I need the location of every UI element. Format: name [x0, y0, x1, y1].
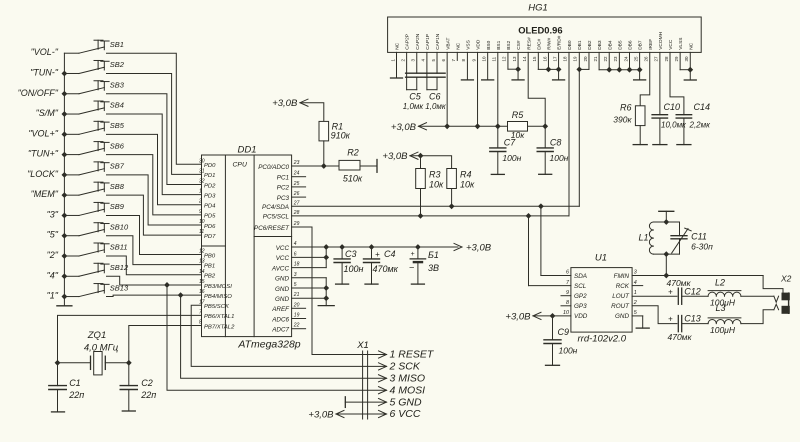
svg-text:DB3: DB3 — [597, 40, 603, 50]
stub — [292, 176, 306, 178]
wire SB3 to MCU — [107, 94, 202, 185]
svg-text:SB9: SB9 — [110, 202, 125, 211]
svg-text:+: + — [668, 315, 673, 324]
svg-text:10к: 10к — [429, 179, 444, 189]
wire PC0/ADC0 — [292, 165, 324, 167]
stub GP2 — [561, 295, 571, 297]
svg-text:NC: NC — [395, 42, 401, 49]
svg-text:29: 29 — [674, 56, 679, 62]
svg-text:BS2: BS2 — [506, 40, 512, 49]
svg-text:10: 10 — [563, 310, 569, 316]
svg-text:1,0мк: 1,0мк — [403, 102, 425, 111]
svg-text:8: 8 — [566, 300, 569, 306]
svg-text:13: 13 — [199, 259, 205, 265]
node DB5 — [616, 67, 622, 73]
svg-text:4: 4 — [294, 241, 297, 247]
svg-text:3 MISO: 3 MISO — [390, 373, 426, 385]
wire C13 to L3 — [682, 323, 708, 325]
svg-text:SCL: SCL — [574, 283, 587, 290]
wire antenna to tank — [665, 211, 667, 222]
wire VBAT to rail — [446, 52, 448, 126]
stub — [292, 196, 306, 198]
svg-text:1 RESET: 1 RESET — [390, 349, 435, 361]
svg-text:VCOMH: VCOMH — [658, 31, 664, 49]
svg-text:16: 16 — [199, 289, 205, 295]
svg-text:VDD: VDD — [574, 313, 588, 320]
svg-text:+: + — [375, 250, 380, 259]
svg-text:PD1: PD1 — [204, 173, 215, 179]
svg-text:ZQ1: ZQ1 — [87, 330, 106, 341]
svg-text:10к: 10к — [460, 179, 475, 189]
pin 4 MOSI arrow — [379, 387, 387, 394]
node R3 top — [418, 153, 424, 159]
svg-text:9: 9 — [199, 209, 202, 215]
ground (C7) — [491, 173, 504, 175]
svg-text:X1: X1 — [356, 340, 369, 351]
svg-text:9: 9 — [566, 290, 569, 296]
svg-text:1,0мк: 1,0мк — [425, 102, 447, 111]
wire VCC6/AVCC to rail — [325, 247, 327, 268]
wire BS0 to ground — [487, 52, 489, 80]
capacitor C8 100n — [544, 126, 546, 148]
node FMIN — [663, 273, 669, 279]
node SDA/U1 — [538, 203, 544, 209]
svg-text:2: 2 — [198, 199, 202, 205]
svg-text:100н: 100н — [550, 153, 569, 163]
svg-text:+3,0В: +3,0В — [391, 122, 417, 133]
ground (R6) — [633, 144, 647, 146]
svg-text:31: 31 — [199, 168, 205, 174]
svg-text:SB12: SB12 — [110, 263, 129, 272]
svg-text:18: 18 — [294, 262, 300, 268]
wire NC pin1 — [396, 52, 398, 78]
svg-text:L3: L3 — [715, 303, 725, 313]
button SB1 — [31, 40, 124, 57]
svg-text:100н: 100н — [559, 346, 578, 356]
svg-text:14: 14 — [199, 269, 205, 275]
svg-text:32: 32 — [199, 179, 205, 185]
node BS1/C7 — [495, 123, 501, 129]
inductor L1 — [638, 222, 679, 254]
svg-text:C5: C5 — [409, 92, 421, 102]
resistor R2 510k — [324, 165, 339, 167]
node DB6 — [627, 67, 633, 73]
svg-text:26: 26 — [644, 56, 649, 62]
svg-text:–: – — [409, 263, 415, 272]
svg-text:25: 25 — [633, 56, 638, 62]
svg-text:VCC: VCC — [276, 255, 290, 262]
wire LOUT to C12 — [632, 295, 677, 297]
capacitor C9 100n — [552, 316, 554, 340]
button SB9 — [47, 202, 125, 219]
svg-text:C1: C1 — [69, 378, 81, 388]
svg-text:3В: 3В — [428, 263, 439, 273]
pin 3 MISO arrow — [379, 375, 387, 382]
svg-text:1: 1 — [199, 189, 202, 195]
svg-text:30: 30 — [199, 158, 205, 164]
svg-text:DB7: DB7 — [638, 40, 644, 50]
ground (MCU) — [318, 305, 334, 307]
svg-text:+3,0В: +3,0В — [382, 151, 408, 162]
svg-text:24: 24 — [293, 171, 300, 177]
wire SB12 to MCU — [107, 276, 202, 285]
wire U1 GND to ground — [632, 315, 643, 317]
wire SCL net (PC5 - R3 - U1 - OLED DB0) — [292, 215, 569, 217]
wire SB8 to MCU — [107, 195, 202, 235]
svg-text:+3,0В: +3,0В — [308, 410, 334, 421]
svg-text:PB1: PB1 — [204, 263, 215, 269]
svg-text:BS0: BS0 — [486, 40, 492, 49]
svg-text:"S/M": "S/M" — [36, 108, 59, 118]
node SDA/R4 — [449, 203, 455, 209]
ground (C8) — [539, 173, 552, 175]
svg-text:AREF: AREF — [271, 306, 290, 313]
svg-text:CAP2N: CAP2N — [415, 33, 421, 50]
svg-text:22п: 22п — [140, 390, 156, 400]
svg-text:Б1: Б1 — [428, 250, 439, 260]
stub — [292, 307, 306, 309]
wire BS2/CS# to ground — [507, 52, 509, 69]
svg-text:20: 20 — [583, 56, 588, 62]
svg-text:29: 29 — [293, 221, 300, 227]
pin 2 SCK arrow — [379, 363, 387, 370]
svg-text:DB2: DB2 — [587, 40, 593, 50]
wire RES# to rail — [528, 52, 545, 126]
svg-text:1: 1 — [634, 290, 637, 296]
wire SB2 to MCU — [107, 73, 202, 174]
wire +3,0B to R3/R4 — [410, 156, 452, 169]
wire SB10 to MCU — [107, 236, 202, 265]
capacitor C1 22p — [57, 363, 59, 386]
svg-text:DB0: DB0 — [567, 40, 573, 50]
svg-text:2: 2 — [633, 300, 637, 306]
ground (VSS) — [461, 79, 473, 81]
node XTAL1 — [55, 360, 61, 366]
ground (C3) — [336, 283, 349, 285]
svg-text:PC1: PC1 — [277, 175, 289, 182]
svg-text:PC5/SCL: PC5/SCL — [263, 214, 290, 221]
wire VSS to ground — [466, 52, 468, 80]
button SB10 — [47, 222, 129, 239]
wire C12 to L2 — [682, 295, 708, 297]
svg-text:VDD: VDD — [476, 39, 482, 50]
node CS# — [515, 66, 521, 72]
svg-text:5 GND: 5 GND — [390, 396, 423, 408]
svg-text:SB5: SB5 — [110, 121, 125, 130]
svg-text:13: 13 — [512, 56, 517, 62]
wire R2 to terminal — [360, 165, 377, 167]
wire PB3/MOSI to X1-4 — [167, 285, 387, 390]
svg-text:3: 3 — [294, 272, 297, 278]
button SB11 — [47, 243, 128, 260]
node VBAT — [444, 123, 450, 129]
svg-text:R6: R6 — [620, 103, 632, 113]
svg-text:17: 17 — [199, 299, 205, 305]
node E/RD# — [556, 67, 562, 73]
svg-text:RES#: RES# — [526, 37, 532, 50]
wire SB13 to MCU — [107, 295, 202, 296]
svg-text:27: 27 — [293, 200, 300, 206]
svg-text:CAP2P: CAP2P — [405, 34, 411, 50]
node NC30 — [687, 67, 693, 73]
svg-text:C8: C8 — [550, 138, 562, 148]
resistor R6 390k — [635, 106, 645, 126]
svg-text:PB4/MISO: PB4/MISO — [204, 294, 232, 300]
wire FMIN to X2 — [632, 275, 763, 277]
stub — [292, 328, 306, 330]
wire SB7 to MCU — [107, 175, 202, 225]
svg-text:11: 11 — [199, 229, 204, 235]
inductor L2 100uH — [708, 278, 741, 308]
svg-text:GND: GND — [615, 313, 629, 320]
button SB4 — [36, 101, 124, 118]
ground (CS#) — [512, 79, 524, 81]
ground (C14) — [677, 144, 691, 146]
svg-text:C14: C14 — [694, 102, 711, 112]
wire L2 to X2 — [741, 295, 774, 297]
node R/W# — [546, 67, 552, 73]
svg-text:+3,0В: +3,0В — [466, 242, 492, 253]
svg-text:VBAT: VBAT — [445, 38, 451, 50]
node tank bottom — [663, 251, 669, 257]
wire SB1 to MCU — [107, 53, 202, 164]
wire R1 to PC0 — [323, 141, 325, 166]
svg-text:24: 24 — [623, 56, 628, 62]
node tank top — [663, 219, 669, 225]
node DB7 — [637, 67, 643, 73]
button SB6 — [28, 141, 125, 158]
svg-text:SB2: SB2 — [110, 60, 125, 69]
svg-text:PB6/XTAL1: PB6/XTAL1 — [204, 314, 234, 320]
svg-text:+: + — [411, 251, 415, 258]
svg-text:R4: R4 — [460, 169, 472, 179]
svg-text:C9: C9 — [558, 327, 570, 337]
display HG1 OLED0.96 — [388, 3, 702, 53]
node DB4 — [606, 67, 612, 73]
capacitor C10 10.0uk — [659, 52, 661, 114]
svg-text:3: 3 — [634, 270, 637, 276]
svg-text:SB1: SB1 — [110, 40, 124, 49]
svg-text:10: 10 — [481, 56, 486, 62]
svg-text:GND: GND — [275, 296, 289, 303]
svg-text:NC: NC — [688, 42, 694, 49]
ground (B1) — [411, 283, 424, 285]
svg-text:6: 6 — [566, 270, 569, 276]
svg-text:R5: R5 — [512, 110, 524, 120]
svg-text:ATmega328p: ATmega328p — [237, 339, 300, 351]
svg-text:VCC: VCC — [668, 39, 674, 50]
capacitor C6 1.0uk — [426, 52, 428, 89]
svg-text:L1: L1 — [638, 233, 648, 243]
svg-text:HG1: HG1 — [528, 3, 548, 14]
svg-text:100н: 100н — [502, 153, 521, 163]
button SB3 — [18, 80, 125, 97]
contact X2 tip — [774, 296, 779, 302]
wire L3 to X2 — [741, 310, 774, 324]
svg-text:25: 25 — [293, 181, 300, 187]
svg-text:L2: L2 — [715, 278, 725, 288]
wire DB0 (SCL) — [568, 52, 570, 69]
svg-text:PC2: PC2 — [277, 185, 290, 192]
wire VDD — [533, 315, 571, 317]
svg-text:SB11: SB11 — [110, 243, 128, 252]
svg-text:4 MOSI: 4 MOSI — [390, 384, 426, 396]
battery B1 3V — [417, 247, 419, 259]
terminal bar (pin1) — [391, 77, 403, 79]
svg-text:VCC: VCC — [276, 245, 290, 252]
capacitor C12 470uk — [677, 288, 679, 304]
svg-text:PB2: PB2 — [204, 274, 216, 280]
svg-text:C10: C10 — [664, 102, 681, 112]
power +3,0B (rail) — [454, 243, 462, 250]
svg-text:C11: C11 — [691, 231, 707, 241]
svg-text:PD4: PD4 — [204, 204, 216, 210]
svg-text:18: 18 — [563, 56, 568, 62]
svg-text:DD1: DD1 — [237, 145, 256, 156]
svg-text:X2: X2 — [780, 274, 792, 284]
resistor R1 910k — [319, 121, 329, 140]
svg-text:VSS: VSS — [466, 40, 472, 50]
pin 1 RESET arrow — [379, 351, 387, 358]
capacitor C5 1.0uk — [406, 52, 408, 89]
svg-text:PB7/XTAL2: PB7/XTAL2 — [204, 324, 235, 330]
ground (E/RD#) — [553, 79, 565, 81]
wire SB9 to MCU — [107, 215, 202, 254]
svg-text:390к: 390к — [613, 115, 632, 125]
capacitor C7 100n — [497, 126, 499, 148]
wire VDD to rail — [477, 52, 479, 126]
node SCL/R3 — [418, 213, 424, 219]
svg-text:ADC6: ADC6 — [271, 316, 289, 323]
connector X1 — [356, 340, 369, 419]
wire X1-6 VCC — [336, 413, 387, 415]
svg-text:4: 4 — [634, 280, 637, 286]
svg-text:C3: C3 — [345, 249, 357, 259]
svg-text:"5": "5" — [47, 230, 59, 240]
node DB1 — [576, 67, 582, 73]
svg-text:"MEM": "MEM" — [31, 189, 59, 199]
svg-text:PD7: PD7 — [204, 234, 216, 240]
svg-text:DB5: DB5 — [617, 40, 623, 50]
svg-text:22: 22 — [293, 323, 300, 329]
node RES#/C8 — [542, 123, 548, 129]
wire DB3-DB7 to ground — [599, 69, 640, 71]
node PC0/R1/R2 — [321, 163, 327, 169]
svg-text:"LOCK": "LOCK" — [27, 169, 59, 179]
crystal ZQ1 4.0 MHz — [58, 330, 129, 375]
wire IREF to R6 — [640, 52, 650, 105]
ground (C1) — [52, 411, 65, 413]
svg-text:910к: 910к — [331, 130, 351, 140]
svg-text:10: 10 — [199, 219, 205, 225]
node VDD/C9 — [550, 313, 556, 319]
capacitor C11 6-30p trimmer — [679, 222, 681, 236]
svg-text:SB6: SB6 — [110, 141, 125, 150]
svg-text:SB8: SB8 — [110, 182, 125, 191]
svg-text:"4": "4" — [47, 270, 59, 280]
ground (BS0) — [482, 79, 494, 81]
svg-text:C7: C7 — [504, 138, 516, 148]
svg-text:C2: C2 — [141, 378, 153, 388]
svg-text:23: 23 — [293, 160, 300, 166]
svg-text:30: 30 — [684, 56, 689, 62]
wire R4 to SDA — [451, 189, 453, 207]
svg-text:26: 26 — [293, 191, 300, 197]
stub — [292, 186, 306, 188]
svg-text:SDA: SDA — [574, 273, 587, 280]
svg-text:"ON/OFF": "ON/OFF" — [18, 88, 59, 98]
wire PB6/XTAL1 to ZQ1 — [58, 315, 202, 362]
svg-text:rrd-102v2.0: rrd-102v2.0 — [578, 334, 627, 345]
wire PB7/XTAL2 to ZQ1 — [129, 326, 202, 363]
svg-text:SB13: SB13 — [110, 283, 129, 292]
svg-text:E/RD#: E/RD# — [557, 35, 563, 49]
svg-text:SB7: SB7 — [110, 162, 125, 171]
svg-text:14: 14 — [522, 56, 527, 62]
ground (C4) — [365, 283, 378, 285]
svg-text:5: 5 — [294, 282, 297, 288]
capacitor C13 470uk — [677, 316, 679, 332]
svg-text:BS1: BS1 — [496, 40, 502, 49]
node button common bus — [63, 53, 65, 305]
svg-text:PD0: PD0 — [204, 163, 216, 169]
svg-text:ROUT: ROUT — [611, 303, 630, 310]
wire SB5 to MCU — [107, 134, 202, 204]
button SB2 — [30, 60, 125, 77]
capacitor C4 470u — [371, 247, 373, 259]
svg-text:15: 15 — [199, 279, 205, 285]
svg-text:"TUN-": "TUN-" — [30, 67, 59, 77]
svg-text:8: 8 — [199, 320, 202, 326]
wire tank to FMIN — [665, 254, 667, 275]
svg-text:PD5: PD5 — [204, 214, 216, 220]
svg-text:20: 20 — [293, 302, 300, 308]
wire SB6 to MCU — [107, 155, 202, 215]
wire VLSS/NC30 to ground — [679, 52, 681, 69]
wire PB4/MISO to X1-3 — [181, 295, 387, 378]
svg-text:PD6: PD6 — [204, 224, 216, 230]
svg-text:17: 17 — [552, 56, 557, 62]
svg-text:12: 12 — [502, 56, 507, 62]
terminal bar (R2) — [376, 160, 378, 173]
wire GND pins — [325, 278, 327, 306]
capacitor C14 2.2uk — [670, 52, 684, 114]
button SB5 — [28, 121, 124, 138]
svg-text:15: 15 — [532, 56, 537, 62]
svg-text:100н: 100н — [344, 264, 364, 274]
wire SB11 to MCU — [107, 256, 202, 275]
wire SDA net (PC4 - R4 - U1 - OLED DB1) — [292, 205, 580, 207]
svg-text:CAP1N: CAP1N — [435, 33, 441, 50]
terminal bar (X1 GND) — [344, 397, 346, 408]
wire D/C#,R/W#,E/RD# to ground — [537, 52, 539, 69]
svg-text:+3,0В: +3,0В — [505, 311, 531, 322]
wire ROUT to C13 — [632, 306, 677, 324]
svg-text:GND: GND — [275, 276, 289, 283]
node XTAL2 — [126, 360, 132, 366]
svg-text:2,2мк: 2,2мк — [689, 120, 712, 129]
svg-text:21: 21 — [293, 292, 300, 298]
svg-text:U1: U1 — [595, 253, 607, 264]
svg-text:28: 28 — [293, 210, 300, 216]
capacitor C2 22p — [128, 363, 130, 386]
svg-text:22п: 22п — [68, 390, 84, 400]
svg-text:CPU: CPU — [233, 162, 247, 169]
wire +3,0B to R1 — [300, 103, 324, 122]
svg-text:CS#: CS# — [516, 40, 522, 50]
svg-text:C12: C12 — [684, 286, 701, 296]
svg-text:GP3: GP3 — [574, 303, 587, 310]
